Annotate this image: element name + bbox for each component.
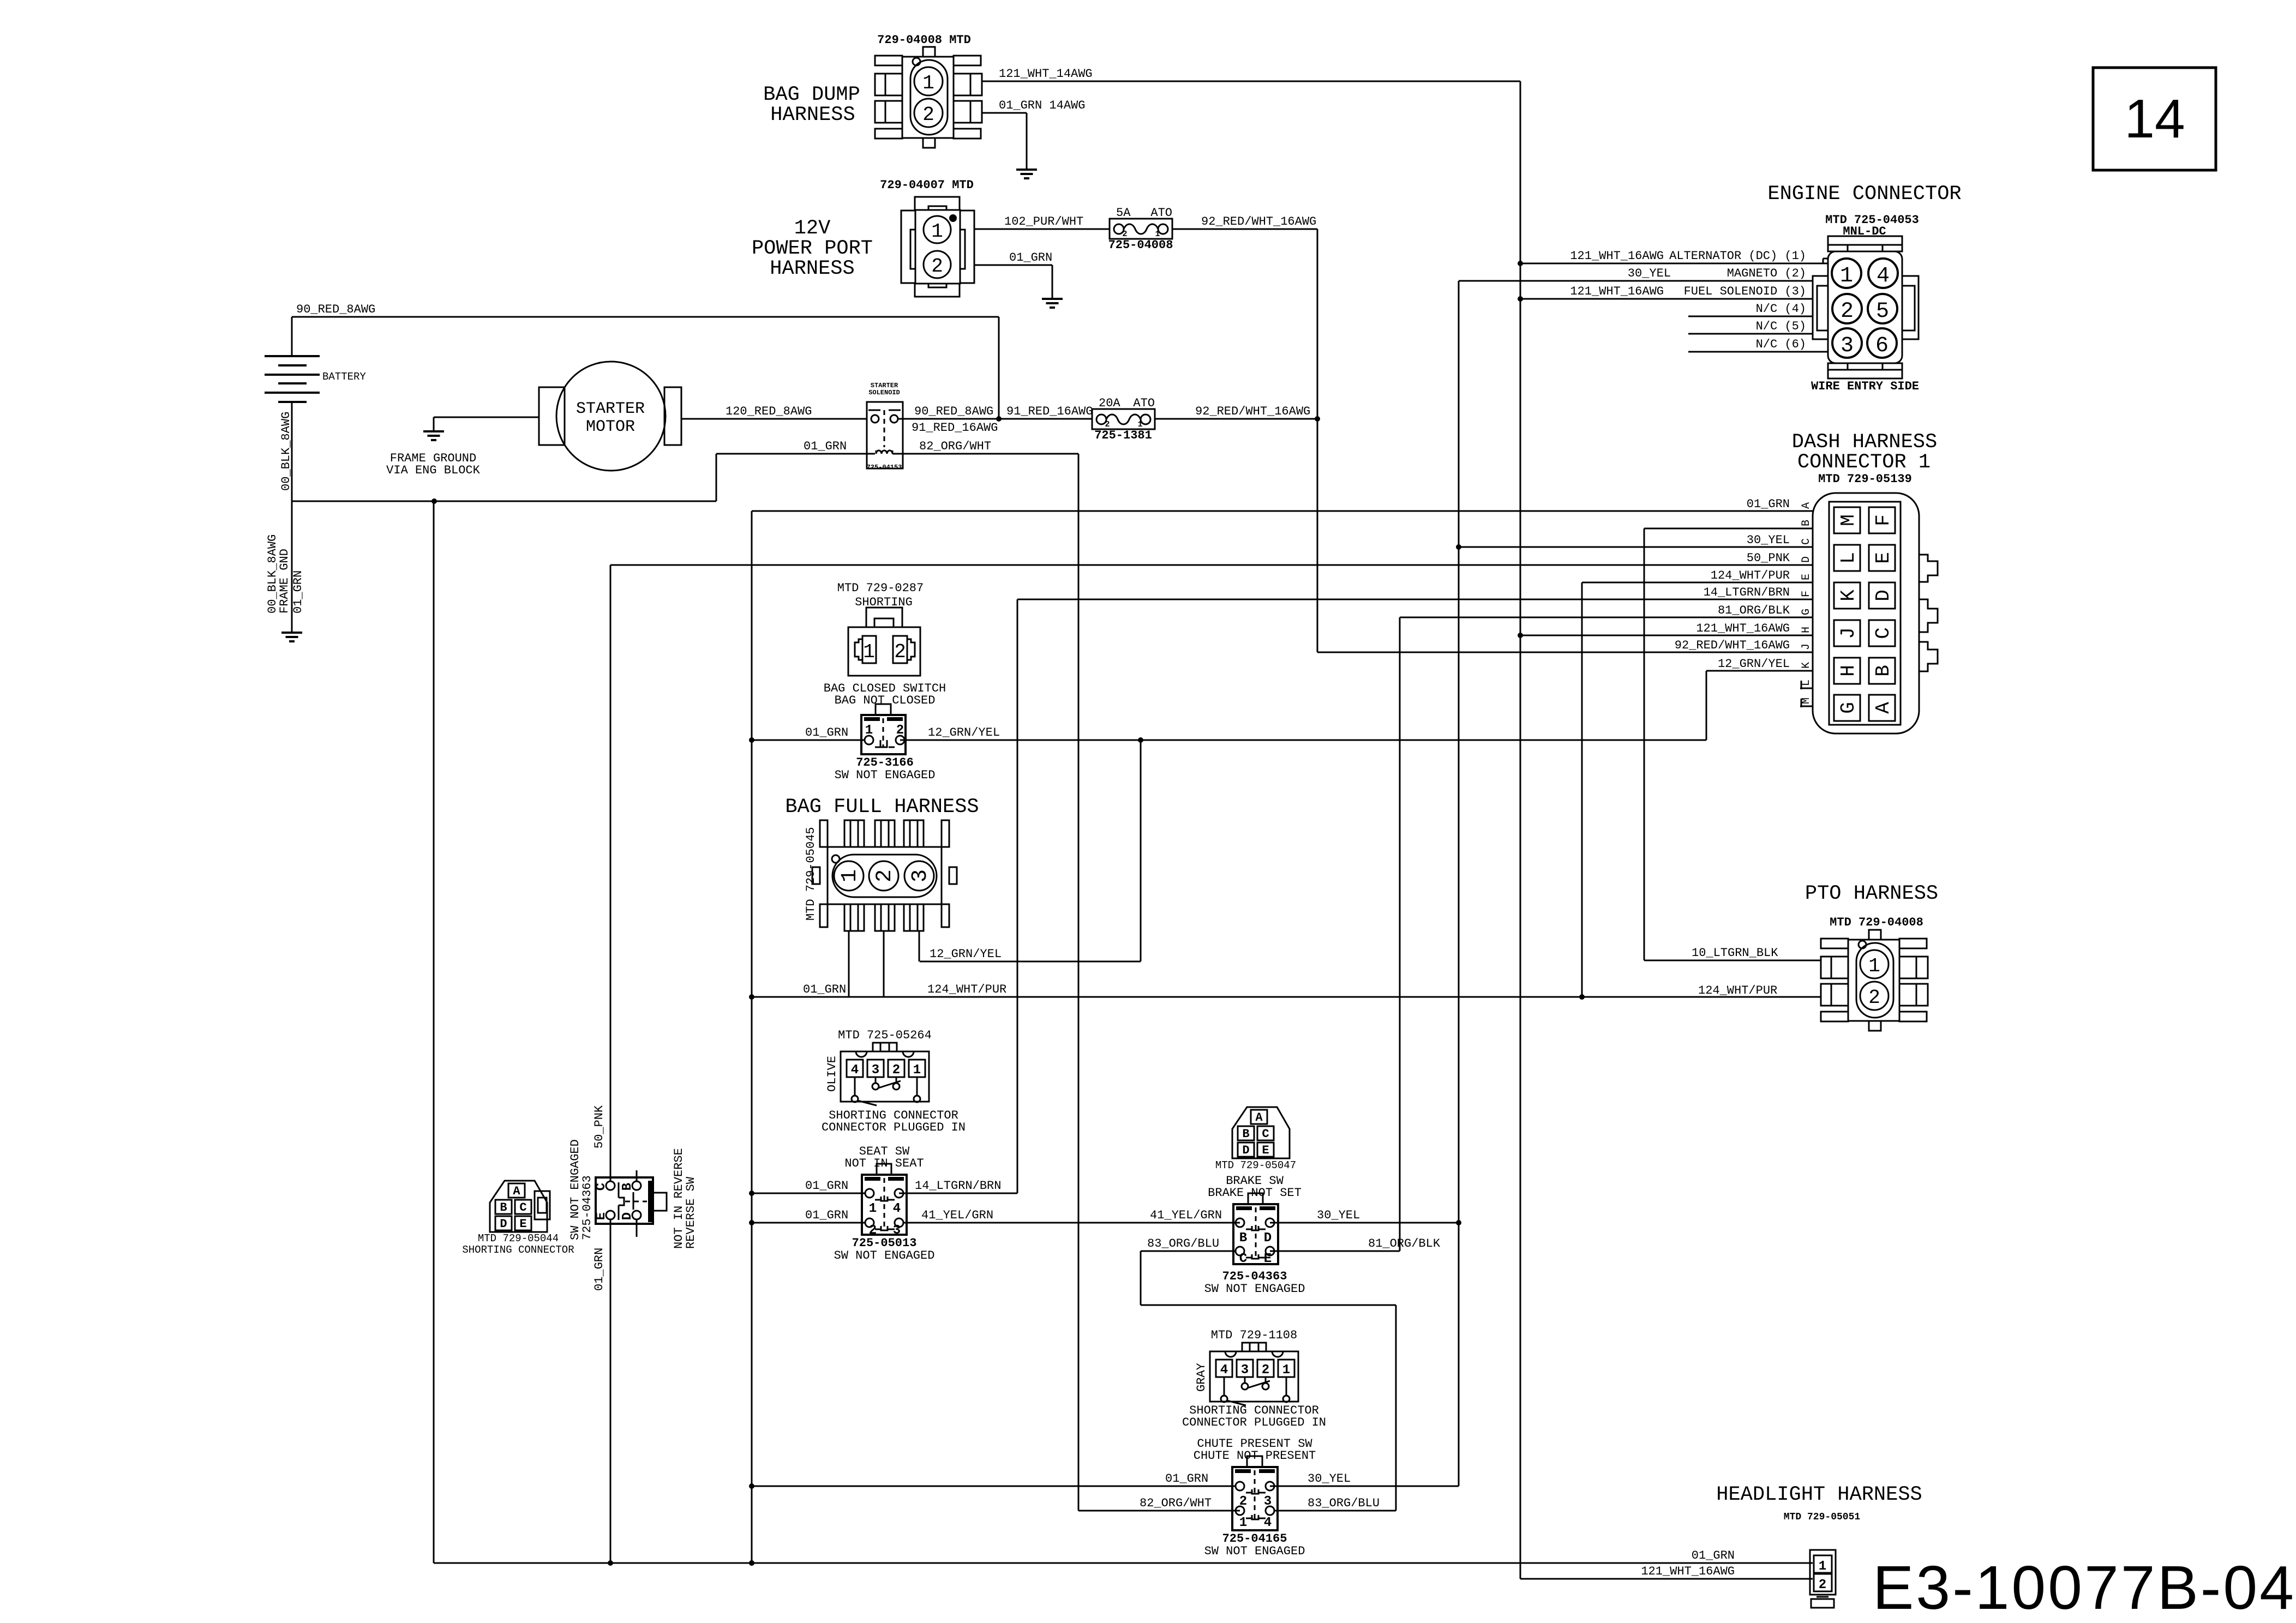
svg-text:725-04153: 725-04153 [867, 464, 902, 471]
label headlight harness title [1716, 1483, 1922, 1523]
svg-text:MTD 729-05045: MTD 729-05045 [804, 827, 818, 921]
svg-text:MTD 725-05264: MTD 725-05264 [838, 1029, 932, 1042]
svg-text:01_GRN: 01_GRN [1747, 497, 1790, 511]
svg-text:102_PUR/WHT: 102_PUR/WHT [1004, 215, 1083, 229]
label 12V power port harness title [752, 217, 873, 280]
wire 01_GRN (chute sw pin 2) [752, 1472, 1236, 1486]
svg-text:F: F [1872, 514, 1895, 526]
node dash pin E [1800, 574, 1813, 580]
svg-text:50_PNK: 50_PNK [592, 1105, 606, 1149]
ground (frame gnd below battery) [266, 501, 305, 641]
node dash pin G [1800, 609, 1813, 615]
svg-text:121_WHT_16AWG: 121_WHT_16AWG [1696, 622, 1790, 635]
svg-text:N/C (6): N/C (6) [1756, 338, 1806, 351]
svg-text:MTD 729-05139: MTD 729-05139 [1818, 472, 1912, 486]
svg-text:SW NOT ENGAGED: SW NOT ENGAGED [1204, 1544, 1305, 1558]
svg-text:1: 1 [931, 220, 943, 243]
svg-text:82_ORG/WHT: 82_ORG/WHT [919, 440, 991, 453]
svg-text:121_WHT_14AWG: 121_WHT_14AWG [999, 67, 1093, 81]
svg-text:C: C [519, 1201, 526, 1215]
wire 01_GRN (reverse sw to frame) [592, 1219, 610, 1563]
wire 121_WHT_16AWG bus (vertical) and dash pin H / headlight [1518, 81, 1813, 1579]
svg-text:121_WHT_16AWG: 121_WHT_16AWG [1570, 285, 1664, 298]
svg-text:1: 1 [1137, 420, 1142, 429]
starter solenoid [867, 382, 903, 471]
node dash pin J [1800, 644, 1813, 650]
shorting connector MTD 729-05044 (house icon) [462, 1181, 574, 1256]
svg-text:B: B [620, 1183, 635, 1191]
svg-text:1: 1 [1840, 264, 1853, 288]
svg-text:41_YEL/GRN: 41_YEL/GRN [921, 1209, 993, 1222]
svg-text:H: H [1800, 627, 1813, 633]
node dash pin A [1800, 502, 1813, 509]
node dash pin L [1800, 680, 1813, 689]
svg-text:90_RED_8AWG: 90_RED_8AWG [296, 303, 375, 316]
svg-text:30_YEL: 30_YEL [1308, 1472, 1351, 1486]
svg-text:WIRE ENTRY SIDE: WIRE ENTRY SIDE [1811, 380, 1919, 393]
wire 121_WHT_16AWG engine pin 3 (fuel solenoid) [1518, 285, 1813, 302]
svg-text:729-04007 MTD: 729-04007 MTD [880, 178, 974, 192]
wire 30_YEL bus (dash pin C / engine magneto / brake / chute) [1270, 281, 1813, 1486]
starter motor [539, 362, 681, 471]
svg-text:H: H [1837, 665, 1860, 677]
svg-text:C: C [594, 1183, 609, 1191]
svg-text:A: A [1800, 502, 1813, 509]
node dash pin K [1800, 662, 1813, 669]
label bag full harness title [785, 796, 979, 819]
fuse 20A ATO 725-1381 [1092, 396, 1155, 442]
svg-text:1: 1 [922, 72, 934, 94]
connector bag dump 729-04008 [875, 33, 982, 148]
wire 41_YEL/GRN (seat pin 3 to brake pin B) [903, 1209, 1240, 1223]
svg-text:J: J [1837, 627, 1860, 639]
svg-text:90_RED_8AWG: 90_RED_8AWG [914, 405, 993, 418]
wire N/C (5) [1688, 320, 1813, 334]
svg-text:BATTERY: BATTERY [322, 371, 366, 383]
svg-text:SW NOT ENGAGED: SW NOT ENGAGED [835, 768, 936, 782]
svg-text:C: C [1239, 1252, 1247, 1266]
svg-text:3: 3 [872, 1063, 879, 1078]
svg-text:2: 2 [1819, 1578, 1826, 1592]
label PTO harness title [1805, 882, 1938, 905]
svg-text:83_ORG/BLU: 83_ORG/BLU [1147, 1237, 1219, 1251]
svg-text:14_LTGRN/BRN: 14_LTGRN/BRN [915, 1179, 1001, 1193]
wire N/C (6) [1688, 338, 1828, 352]
svg-text:3: 3 [1241, 1363, 1249, 1378]
connector PTO MTD 729-04008 [1821, 916, 1928, 1031]
svg-text:01_GRN: 01_GRN [1165, 1472, 1208, 1486]
svg-text:PTO HARNESS: PTO HARNESS [1805, 882, 1938, 905]
wire 83_ORG/BLU (brake pin C to chute pin 4) [1141, 1237, 1396, 1511]
svg-text:12V: 12V [794, 217, 831, 240]
svg-text:83_ORG/BLU: 83_ORG/BLU [1308, 1496, 1380, 1510]
svg-text:1: 1 [1155, 230, 1160, 239]
svg-text:121_WHT_16AWG: 121_WHT_16AWG [1570, 249, 1664, 263]
svg-text:D: D [620, 1212, 635, 1220]
svg-text:B: B [500, 1201, 507, 1215]
label bag dump harness title [763, 83, 860, 127]
svg-text:92_RED/WHT_16AWG: 92_RED/WHT_16AWG [1195, 405, 1310, 418]
svg-text:01_GRN: 01_GRN [592, 1248, 606, 1291]
svg-text:01_GRN: 01_GRN [805, 1179, 848, 1193]
ground (frame ground via eng block) [386, 417, 539, 477]
svg-text:81_ORG/BLK: 81_ORG/BLK [1368, 1237, 1441, 1251]
node dash pin C [1800, 538, 1813, 545]
svg-text:A: A [1872, 702, 1895, 714]
svg-text:2: 2 [892, 1063, 900, 1078]
svg-text:SW NOT ENGAGED: SW NOT ENGAGED [834, 1249, 935, 1263]
svg-text:729-04008 MTD: 729-04008 MTD [877, 33, 971, 47]
svg-text:B: B [1239, 1231, 1247, 1246]
svg-text:G: G [1800, 609, 1813, 615]
svg-text:MTD 729-1108: MTD 729-1108 [1211, 1329, 1297, 1342]
svg-text:D: D [1872, 590, 1895, 602]
svg-text:D: D [1264, 1231, 1272, 1246]
svg-text:STARTER: STARTER [576, 400, 645, 418]
svg-text:HARNESS: HARNESS [770, 257, 854, 280]
svg-text:1: 1 [869, 1201, 877, 1216]
svg-text:B: B [1800, 520, 1813, 526]
svg-text:2: 2 [931, 255, 943, 278]
ground (power port) [1042, 299, 1063, 308]
svg-text:3: 3 [908, 869, 933, 882]
svg-text:01_GRN: 01_GRN [1692, 1549, 1735, 1562]
ground (bag dump) [1016, 170, 1037, 178]
svg-text:30_YEL: 30_YEL [1317, 1209, 1360, 1222]
svg-text:1: 1 [1819, 1559, 1826, 1574]
svg-text:MTD 729-0287: MTD 729-0287 [837, 581, 924, 595]
svg-text:CONNECTOR PLUGGED IN: CONNECTOR PLUGGED IN [822, 1121, 966, 1134]
wire 90_RED_8AWG / 91_RED_16AWG (solenoid output) [898, 405, 1093, 435]
svg-text:OLIVE: OLIVE [825, 1056, 839, 1092]
svg-text:ATO: ATO [1133, 396, 1155, 410]
shorting connector MTD 725-05264 (olive) [822, 1029, 966, 1134]
svg-text:10_LTGRN_BLK: 10_LTGRN_BLK [1692, 946, 1778, 960]
svg-text:6: 6 [1875, 334, 1889, 358]
svg-text:K: K [1800, 662, 1813, 669]
svg-text:14: 14 [2124, 88, 2185, 149]
svg-text:E: E [1800, 574, 1813, 580]
svg-text:82_ORG/WHT: 82_ORG/WHT [1140, 1496, 1212, 1510]
svg-text:91_RED_16AWG: 91_RED_16AWG [1006, 405, 1093, 418]
wire 82_ORG/WHT (solenoid coil to chute sw) [892, 440, 1240, 1511]
wire 92_RED/WHT_16AWG (20A fuse output) [1155, 405, 1317, 419]
svg-text:BAG FULL HARNESS: BAG FULL HARNESS [785, 796, 979, 819]
svg-text:50_PNK: 50_PNK [1747, 551, 1790, 565]
wire 50_PNK (dash pin D to reverse sw) [592, 551, 1813, 1181]
svg-text:725-04363: 725-04363 [580, 1175, 594, 1240]
svg-text:K: K [1837, 590, 1860, 602]
connector headlight MTD 729-05051 [1810, 1550, 1836, 1608]
wire 121_WHT_14AWG (bag dump pin 1) [982, 67, 1520, 81]
svg-text:01_GRN: 01_GRN [803, 983, 846, 996]
reverse switch 725-04363 (rotated) [568, 1139, 698, 1249]
svg-text:D: D [500, 1217, 507, 1231]
wire 01_GRN (bag closed sw pin 1) [752, 726, 865, 740]
shorting connector MTD 729-1108 (gray) [1182, 1329, 1326, 1429]
svg-text:725-3166: 725-3166 [856, 756, 914, 770]
svg-text:N/C (5): N/C (5) [1756, 320, 1806, 333]
svg-text:2: 2 [922, 104, 934, 126]
svg-text:SW NOT ENGAGED: SW NOT ENGAGED [1204, 1282, 1305, 1296]
svg-text:M: M [1837, 514, 1860, 526]
wire 121_WHT_16AWG engine pin 1 (alternator) [1518, 249, 1828, 266]
wire 81_ORG/BLK (dash pin G to brake sw pin E) [1270, 604, 1813, 1251]
svg-text:1: 1 [865, 723, 873, 738]
svg-text:1: 1 [913, 1063, 921, 1078]
svg-text:VIA ENG BLOCK: VIA ENG BLOCK [386, 464, 480, 477]
bag closed switch 725-3166 [824, 682, 946, 782]
svg-text:MTD 729-04008: MTD 729-04008 [1830, 916, 1923, 929]
svg-text:J: J [1800, 644, 1813, 650]
svg-text:5: 5 [1876, 299, 1889, 324]
svg-text:1: 1 [838, 869, 862, 882]
svg-text:C: C [1262, 1127, 1269, 1141]
svg-text:GRAY: GRAY [1195, 1363, 1208, 1392]
svg-text:4: 4 [1220, 1363, 1228, 1378]
wire 00_BLK_8AWG (battery - to frame) [279, 412, 716, 504]
seat switch 725-05013 [834, 1145, 935, 1263]
svg-text:00_BLK_8AWG: 00_BLK_8AWG [279, 412, 293, 491]
svg-text:FRAME GND: FRAME GND [278, 549, 291, 614]
svg-text:01_GRN: 01_GRN [805, 726, 848, 740]
svg-text:4: 4 [851, 1063, 859, 1078]
wire N/C (4) [1688, 302, 1813, 316]
connector 12V power port 729-04007 [880, 178, 974, 297]
svg-text:STARTER: STARTER [871, 382, 898, 389]
svg-text:92_RED/WHT_16AWG: 92_RED/WHT_16AWG [1201, 215, 1316, 229]
svg-text:01_GRN: 01_GRN [291, 570, 305, 614]
svg-text:G: G [1837, 702, 1860, 714]
brake switch 725-04363 [1204, 1174, 1305, 1296]
svg-text:2: 2 [1105, 420, 1110, 429]
svg-text:D: D [1242, 1144, 1249, 1157]
svg-text:12_GRN/YEL: 12_GRN/YEL [1718, 657, 1790, 671]
svg-text:725-04008: 725-04008 [1108, 238, 1173, 252]
svg-text:2: 2 [1868, 987, 1880, 1009]
svg-text:SHORTING CONNECTOR: SHORTING CONNECTOR [462, 1244, 574, 1256]
sheet number box 14 [2093, 68, 2216, 170]
svg-text:2: 2 [894, 641, 906, 663]
svg-text:14_LTGRN/BRN: 14_LTGRN/BRN [1704, 586, 1790, 599]
svg-text:E: E [1262, 1144, 1269, 1157]
svg-text:91_RED_16AWG: 91_RED_16AWG [912, 421, 998, 435]
svg-text:4: 4 [1877, 264, 1890, 288]
label dash harness connector 1 title [1792, 431, 1937, 474]
svg-text:E: E [519, 1217, 526, 1231]
svg-text:1: 1 [1282, 1363, 1290, 1378]
svg-text:ALTERNATOR (DC) (1): ALTERNATOR (DC) (1) [1669, 249, 1806, 263]
svg-text:E: E [594, 1212, 609, 1220]
fuse 5A ATO 725-04008 [1108, 206, 1173, 252]
wire 90_RED_8AWG (battery + to solenoid) [292, 303, 1002, 422]
svg-text:2: 2 [1841, 299, 1854, 324]
svg-text:MTD 729-05047: MTD 729-05047 [1215, 1159, 1296, 1171]
node dash pin M [1800, 698, 1813, 707]
svg-text:124_WHT/PUR: 124_WHT/PUR [927, 983, 1006, 996]
svg-text:E: E [1264, 1252, 1272, 1266]
svg-text:MTD 729-05044: MTD 729-05044 [478, 1233, 559, 1245]
svg-text:CONNECTOR PLUGGED IN: CONNECTOR PLUGGED IN [1182, 1416, 1326, 1429]
svg-text:CONNECTOR 1: CONNECTOR 1 [1797, 451, 1931, 474]
svg-text:C: C [1872, 627, 1895, 639]
connector dash harness 1 MTD 729-05139 [1813, 472, 1938, 734]
wire 10_LTGRN_BLK (dash pin B to PTO pin 1) [1644, 528, 1820, 960]
wire 12_GRN/YEL (dash pin K / bag closed sw / bag full pin 3) [900, 657, 1813, 961]
svg-text:POWER PORT: POWER PORT [752, 237, 873, 260]
pin layout icon MTD 729-05047 (house) [1215, 1107, 1296, 1171]
svg-text:3: 3 [893, 1223, 901, 1238]
svg-text:MOTOR: MOTOR [586, 418, 635, 436]
svg-text:01_GRN 14AWG: 01_GRN 14AWG [999, 99, 1085, 112]
svg-text:01_GRN: 01_GRN [805, 1209, 848, 1222]
battery [265, 356, 366, 501]
svg-text:41_YEL/GRN: 41_YEL/GRN [1150, 1209, 1222, 1222]
svg-text:01_GRN: 01_GRN [1009, 251, 1052, 265]
node dash pin B [1800, 520, 1813, 526]
svg-text:81_ORG/BLK: 81_ORG/BLK [1718, 604, 1790, 617]
svg-text:124_WHT/PUR: 124_WHT/PUR [1711, 569, 1790, 582]
svg-text:725-1381: 725-1381 [1094, 429, 1152, 442]
svg-text:124_WHT/PUR: 124_WHT/PUR [1698, 984, 1777, 997]
svg-text:121_WHT_16AWG: 121_WHT_16AWG [1641, 1565, 1735, 1578]
svg-text:3: 3 [1841, 334, 1854, 358]
wire 01_GRN (power port pin 2) [974, 251, 1052, 299]
wire 01_GRN bus (row A and vertical trunk) [749, 497, 1813, 1566]
svg-text:ENGINE CONNECTOR: ENGINE CONNECTOR [1767, 183, 1961, 206]
svg-text:HEADLIGHT HARNESS: HEADLIGHT HARNESS [1716, 1483, 1922, 1506]
wire 102_PUR/WHT [974, 215, 1110, 229]
chute present switch 725-04165 [1194, 1437, 1316, 1558]
svg-text:SOLENOID: SOLENOID [868, 389, 900, 396]
svg-text:FUEL SOLENOID (3): FUEL SOLENOID (3) [1684, 285, 1806, 298]
svg-text:725-05013: 725-05013 [852, 1236, 917, 1250]
svg-text:2: 2 [873, 869, 897, 882]
svg-text:B: B [1242, 1127, 1249, 1141]
wire 120_RED_8AWG [681, 405, 867, 419]
node dash pin F [1800, 591, 1813, 597]
svg-text:725-04165: 725-04165 [1222, 1532, 1287, 1546]
svg-text:120_RED_8AWG: 120_RED_8AWG [726, 405, 812, 418]
shorting connector MTD 729-0287 [837, 581, 924, 676]
svg-text:BAG NOT CLOSED: BAG NOT CLOSED [835, 694, 936, 707]
svg-text:A: A [513, 1185, 520, 1198]
svg-text:30_YEL: 30_YEL [1628, 267, 1671, 280]
svg-text:20A: 20A [1099, 396, 1120, 410]
connector bag full MTD 729-05045 [804, 820, 957, 997]
wire 30_YEL engine pin 2 (magneto) [1459, 267, 1813, 281]
wire 01_GRN 14AWG (bag dump pin 2) [982, 99, 1085, 170]
svg-text:725-04363: 725-04363 [1222, 1270, 1287, 1283]
svg-text:12_GRN/YEL: 12_GRN/YEL [930, 947, 1002, 961]
engine connector MTD 725-04053 MNL-DC [1811, 213, 1919, 393]
drawing number E3-10077B-04 [1873, 1553, 2294, 1622]
svg-text:MAGNETO (2): MAGNETO (2) [1727, 267, 1806, 280]
wire 92_RED/WHT_16AWG (5A fuse to dash pin J) [1172, 215, 1813, 652]
svg-text:92_RED/WHT_16AWG: 92_RED/WHT_16AWG [1675, 639, 1790, 652]
svg-text:30_YEL: 30_YEL [1747, 533, 1790, 547]
wire 14_LTGRN/BRN (dash pin F to seat sw pin 4) [899, 586, 1813, 1193]
wire 124_WHT/PUR (dash pin E / bag full pin 2 / PTO pin 2) [752, 569, 1820, 1000]
svg-text:B: B [1872, 665, 1895, 677]
svg-text:MTD 729-05051: MTD 729-05051 [1784, 1512, 1861, 1523]
wire 01_GRN (seat sw pins 1,2) [752, 1179, 865, 1223]
svg-text:N/C (4): N/C (4) [1756, 302, 1806, 316]
svg-text:REVERSE SW: REVERSE SW [684, 1176, 698, 1249]
svg-text:5A: 5A [1116, 206, 1131, 220]
svg-text:BAG DUMP: BAG DUMP [763, 83, 860, 106]
svg-text:ATO: ATO [1150, 206, 1172, 220]
svg-text:E: E [1872, 552, 1895, 564]
wire 01_GRN (solenoid coil) [716, 440, 875, 501]
label engine connector title [1767, 183, 1961, 206]
svg-text:2: 2 [1122, 230, 1127, 239]
svg-text:01_GRN: 01_GRN [804, 440, 847, 453]
svg-text:2: 2 [869, 1223, 877, 1238]
svg-text:C: C [1800, 538, 1813, 545]
svg-text:1: 1 [863, 641, 875, 663]
svg-text:HARNESS: HARNESS [770, 104, 855, 127]
svg-text:F: F [1800, 591, 1813, 597]
svg-text:2: 2 [896, 723, 904, 738]
svg-text:D: D [1800, 556, 1813, 563]
svg-text:12_GRN/YEL: 12_GRN/YEL [928, 726, 1000, 740]
svg-text:DASH HARNESS: DASH HARNESS [1792, 431, 1937, 454]
svg-text:A: A [1255, 1111, 1263, 1125]
svg-text:L: L [1837, 552, 1860, 564]
svg-text:2: 2 [1262, 1363, 1269, 1378]
node dash pin H [1800, 627, 1813, 633]
wire 01_GRN (headlight pin 1) [434, 501, 1813, 1566]
svg-text:E3-10077B-04: E3-10077B-04 [1873, 1553, 2294, 1622]
svg-text:1: 1 [1868, 955, 1880, 977]
node dash pin D [1800, 556, 1813, 563]
svg-text:4: 4 [893, 1201, 901, 1216]
